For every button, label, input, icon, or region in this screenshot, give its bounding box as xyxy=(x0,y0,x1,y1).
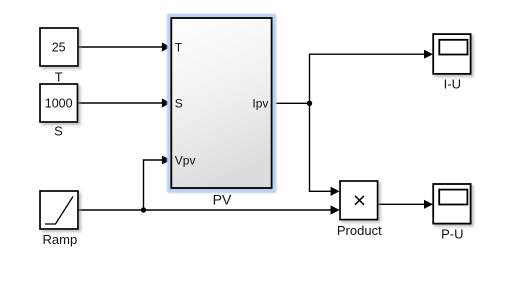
svg-text:1000: 1000 xyxy=(45,97,73,111)
svg-text:25: 25 xyxy=(52,41,66,55)
svg-text:S: S xyxy=(54,124,63,139)
wire W5: Product output to Scope P-U xyxy=(378,200,433,209)
svg-text:P-U: P-U xyxy=(441,226,463,241)
svg-text:Product: Product xyxy=(337,223,382,238)
svg-text:I-U: I-U xyxy=(444,76,461,91)
junction: Ramp wire branch node xyxy=(141,207,146,212)
constant block S (value 1000) xyxy=(40,84,78,122)
ramp block xyxy=(40,191,78,229)
wire W1: Constant T output to PV port T xyxy=(78,43,171,52)
svg-text:Vpv: Vpv xyxy=(175,153,196,167)
scope block I-U xyxy=(433,34,470,74)
svg-text:Ipv: Ipv xyxy=(252,97,268,111)
wire W3a: branch from Ramp wire up to PV port Vpv xyxy=(144,156,171,211)
wire W4b: Ipv branch down to Product input 1 xyxy=(310,103,340,196)
junction: Ipv branch node xyxy=(307,101,312,106)
wire W4: PV output Ipv to junction xyxy=(272,102,310,104)
svg-text:T: T xyxy=(55,69,63,84)
constant block T (value 25) xyxy=(40,28,78,66)
wire W4a: Ipv branch up to Scope I-U xyxy=(310,50,434,104)
wire W2: Constant S output to PV port S xyxy=(78,99,171,108)
product block xyxy=(340,181,378,220)
svg-text:S: S xyxy=(175,96,183,110)
svg-text:Ramp: Ramp xyxy=(43,232,78,247)
wire W3: Ramp output to Product input 2 xyxy=(78,205,340,214)
subsystem block PV xyxy=(171,18,271,188)
subsystem PV selection glow xyxy=(167,14,277,194)
svg-text:PV: PV xyxy=(213,192,232,208)
scope block P-U xyxy=(433,184,470,224)
svg-text:T: T xyxy=(175,40,183,54)
